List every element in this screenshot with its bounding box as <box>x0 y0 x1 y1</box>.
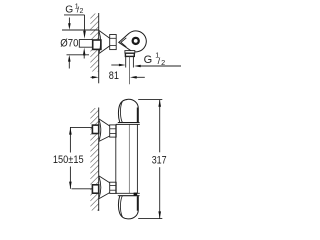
wall hatch (top view) <box>90 5 98 85</box>
dimension 150±15: upper extension line <box>70 126 92 128</box>
pipe centerline extension <box>129 56 131 84</box>
dimension 317: lower extension line <box>138 218 162 220</box>
G 1/2 outlet: left arrow (points right) <box>111 64 122 66</box>
dimension 317: upper extension line <box>138 99 162 101</box>
dimension 317: vertical line (interrupted by text) <box>159 100 161 219</box>
bottom knob cap edge <box>120 196 122 218</box>
svg-text:Ø70: Ø70 <box>60 38 78 50</box>
body highlight line <box>128 124 130 193</box>
bottom shoulder lines <box>116 192 140 194</box>
svg-text:81: 81 <box>109 70 119 82</box>
dimension 81: right arrow (points left at pipe axis) <box>134 76 145 78</box>
escutcheon cone (top view) <box>99 30 110 54</box>
dimension 81: left arrow (points right at wall) <box>91 76 96 78</box>
supply pipe behind wall <box>79 40 92 48</box>
dimension Ø70: bottom extension line <box>67 54 90 56</box>
lower union nut <box>110 182 117 193</box>
upper wall socket (bold) <box>92 125 98 133</box>
body tube (front view) <box>116 124 138 193</box>
top knob dark right edge <box>137 108 139 123</box>
bottom knob (volume handle) <box>118 196 138 219</box>
upper escutcheon cone <box>99 119 110 142</box>
wall face line (top view) <box>98 13 100 83</box>
valve body with handle wedge (top view) <box>119 31 147 52</box>
wall face line (front view) <box>98 108 100 212</box>
lower wall socket (bold) <box>92 185 98 193</box>
dimension Ø70: lower arrow (points up) <box>68 62 70 69</box>
arrowhead of G 1/2 leader (down) <box>83 31 86 39</box>
dimension 150±15: arrowheads <box>69 127 72 134</box>
top shoulder lines <box>118 122 140 124</box>
outlet pipe (top view) <box>126 56 134 67</box>
leader line of G 1/2 (top) <box>64 15 85 31</box>
dimension 150±15: lower extension line <box>72 188 93 190</box>
dimension 150±15: vertical line (interrupted by text) <box>69 127 71 188</box>
wall hatch (front view) <box>90 99 98 223</box>
outlet collar under body <box>125 51 135 57</box>
cartridge ring <box>132 37 140 45</box>
G 1/2 outlet: right arrow (points left) + underline leader <box>139 65 182 67</box>
dimension 317: arrowheads <box>158 100 161 107</box>
lower escutcheon cone <box>99 176 110 199</box>
outlet stub (black dot) <box>134 193 138 197</box>
svg-text:317: 317 <box>152 155 167 167</box>
dimension Ø70: upper arrow (points down) <box>68 18 70 25</box>
dimension Ø70: top extension line <box>62 29 99 31</box>
handle grip chevron <box>121 38 126 47</box>
upper union nut <box>110 125 117 137</box>
up arrow below supply pipe <box>83 52 85 59</box>
top knob (temperature handle) <box>118 99 138 122</box>
union nut (top view) <box>110 35 117 50</box>
bottom knob dark right edge <box>137 196 139 211</box>
svg-text:150±15: 150±15 <box>53 154 84 166</box>
top knob cap edge <box>120 101 122 123</box>
wall socket (top view, bold) <box>93 40 101 49</box>
